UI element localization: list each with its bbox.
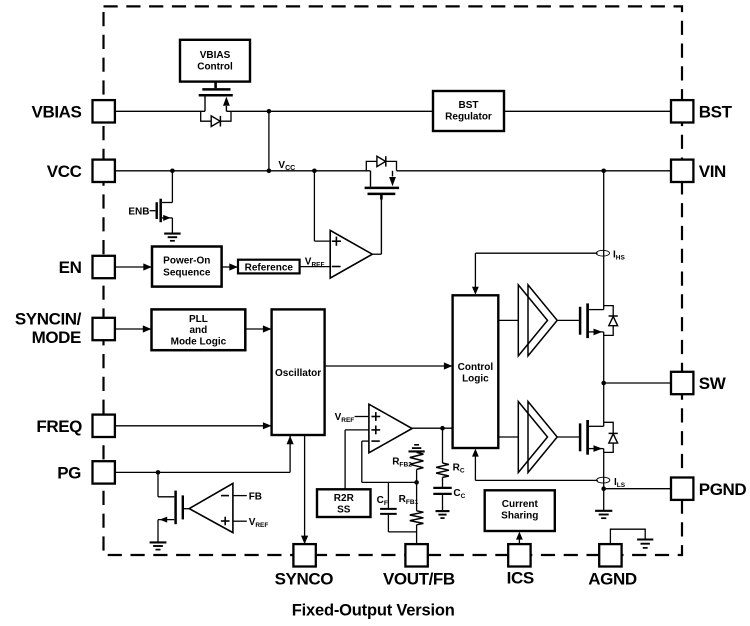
pin VCC xyxy=(93,160,115,182)
svg-text:MODE: MODE xyxy=(32,328,81,347)
block Reference xyxy=(238,260,300,274)
svg-text:RFB1: RFB1 xyxy=(399,494,419,506)
svg-text:ICS: ICS xyxy=(507,569,534,588)
wire PG up into Oscillator xyxy=(289,436,291,472)
wire VREF input of PG comparator xyxy=(233,520,247,522)
svg-text:R2R: R2R xyxy=(334,493,355,504)
pin ICS xyxy=(508,544,530,566)
svg-text:ILS: ILS xyxy=(614,477,626,489)
wire rail low-side source to ground xyxy=(603,449,605,511)
svg-text:VOUT/FB: VOUT/FB xyxy=(383,569,455,588)
svg-text:Oscillator: Oscillator xyxy=(275,368,321,379)
block Current Sharing xyxy=(485,490,555,531)
svg-text:SYNCIN/: SYNCIN/ xyxy=(15,310,82,329)
svg-text:BST: BST xyxy=(459,100,479,111)
svg-text:Sequence: Sequence xyxy=(163,268,211,279)
svg-text:Power-On: Power-On xyxy=(163,256,210,267)
pin SYNCO xyxy=(293,544,315,566)
node VIN rail junction xyxy=(601,169,606,174)
wire Control Logic to high-side driver xyxy=(498,319,518,321)
svg-text:BST: BST xyxy=(699,102,733,121)
diode D3 body diode of Q5 xyxy=(604,306,614,316)
pin EN xyxy=(93,256,115,278)
wire error amp output to Control Logic xyxy=(412,427,453,429)
node feedback divider junction xyxy=(414,480,419,485)
wire op-amp noninverting input from VCC xyxy=(313,171,315,241)
wire feedback to error amp inverting input xyxy=(362,440,369,442)
wire Control Logic to low-side driver xyxy=(498,436,518,438)
op-amp U3 error amplifier xyxy=(369,404,412,453)
svg-text:Logic: Logic xyxy=(462,373,489,384)
node PG FET junction xyxy=(156,470,161,475)
node SW junction xyxy=(601,381,606,386)
pin FREQ xyxy=(93,415,115,437)
wire VIN rail down to high-side FET xyxy=(603,171,605,310)
svg-text:Fixed-Output Version: Fixed-Output Version xyxy=(292,601,455,619)
transistor Q1 VBIAS pass FET xyxy=(214,82,217,89)
svg-text:VREF: VREF xyxy=(305,256,325,268)
diode D2 bypass of VCC FET xyxy=(366,161,376,170)
sense IHS current monitor xyxy=(475,252,597,254)
wire VBIAS pin to pass FET xyxy=(115,110,205,112)
wire FREQ pin to Oscillator xyxy=(115,425,271,427)
pin VIN xyxy=(671,160,693,182)
pin PGND xyxy=(671,478,693,500)
wire EN pin to Power-On Sequence xyxy=(115,266,151,268)
svg-text:Control: Control xyxy=(458,362,494,373)
svg-text:AGND: AGND xyxy=(588,569,637,588)
transistor Q3 ENB FET xyxy=(150,210,156,212)
wire FB input of PG comparator xyxy=(233,495,247,497)
pin BST xyxy=(671,100,693,122)
svg-text:SYNCO: SYNCO xyxy=(275,569,334,588)
svg-text:VCC: VCC xyxy=(278,160,295,172)
comparator U2 power-good xyxy=(189,483,233,532)
wire ICS pin to Current Sharing xyxy=(518,537,520,544)
wire SW rail segment xyxy=(603,332,605,426)
resistor RFB2 xyxy=(410,452,424,469)
sense ILS current monitor xyxy=(475,479,597,481)
wire PLL to Oscillator xyxy=(245,328,270,330)
IC boundary dashed border xyxy=(104,6,683,555)
diode D4 body diode of Q6 xyxy=(604,422,614,433)
block PLL and Mode Logic xyxy=(152,309,246,350)
wire BST Regulator to BST pin xyxy=(504,110,671,112)
svg-text:Mode Logic: Mode Logic xyxy=(171,336,227,347)
wire R2R SS to error amp input 2 xyxy=(345,429,369,431)
wire Oscillator to Control Logic xyxy=(325,365,452,367)
wire junction down to VCC line xyxy=(268,111,270,171)
svg-text:VCC: VCC xyxy=(47,162,82,181)
op-amp U1 VCC regulator xyxy=(330,230,372,278)
block R2R SS xyxy=(317,489,371,517)
capacitor CF xyxy=(387,482,389,508)
svg-text:PGND: PGND xyxy=(699,480,747,499)
ground of PG FET xyxy=(150,541,167,543)
driver A1 high-side gate driver xyxy=(518,285,547,356)
diode D1 bypass of VBIAS FET xyxy=(201,111,211,121)
transistor Q5 high-side FET xyxy=(579,307,582,335)
wire Power-On Sequence to Reference xyxy=(222,266,237,268)
wire high-side driver to Q5 gate xyxy=(557,319,579,321)
wire Oscillator to SYNCO pin xyxy=(304,435,306,544)
pin AGND xyxy=(599,544,621,566)
svg-text:PLL: PLL xyxy=(189,314,208,325)
wire SYNCIN/MODE pin to PLL xyxy=(115,328,151,330)
svg-text:IHS: IHS xyxy=(613,249,625,261)
ground of compensation xyxy=(442,494,444,511)
svg-text:VREF: VREF xyxy=(249,517,269,529)
ground analog ground symbol xyxy=(637,538,653,540)
wire op-amp output to VCC FET gate xyxy=(372,253,381,255)
svg-text:Regulator: Regulator xyxy=(445,111,492,122)
wire PG pin across to Oscillator bottom xyxy=(115,471,290,473)
block Oscillator xyxy=(272,309,325,435)
svg-text:RC: RC xyxy=(453,462,465,474)
node PGND junction xyxy=(601,486,606,491)
svg-text:Reference: Reference xyxy=(245,262,294,273)
svg-text:RFB2: RFB2 xyxy=(392,457,412,469)
svg-text:SW: SW xyxy=(699,374,727,393)
wire Reference to op-amp inverting input xyxy=(300,266,331,268)
wire to PGND pin xyxy=(604,488,671,490)
pin VBIAS xyxy=(93,100,115,122)
node VBIAS-VCC junction xyxy=(267,169,272,174)
svg-text:FB: FB xyxy=(249,491,262,502)
node compensation junction xyxy=(440,426,445,431)
pin SYNCIN/MODE xyxy=(93,318,115,340)
svg-text:SS: SS xyxy=(337,505,351,516)
transistor Q6 low-side FET xyxy=(579,423,582,451)
svg-text:Sharing: Sharing xyxy=(501,511,538,522)
transistor Q4 PG FET xyxy=(157,472,159,496)
wire pass FET to BST Regulator xyxy=(226,110,433,112)
svg-text:FREQ: FREQ xyxy=(36,417,82,436)
svg-text:VIN: VIN xyxy=(699,162,726,181)
wire VCC pin to pass FET xyxy=(115,170,371,172)
wire low-side driver to Q6 gate xyxy=(557,436,579,438)
node ENB drain junction xyxy=(170,169,175,174)
capacitor CC xyxy=(442,477,444,487)
pin PG xyxy=(93,461,115,483)
driver A2 low-side gate driver xyxy=(518,402,547,473)
svg-text:ENB: ENB xyxy=(128,206,149,217)
wire SW to pin xyxy=(604,382,671,384)
svg-text:VREF: VREF xyxy=(335,412,355,424)
block Power-On Sequence xyxy=(152,247,222,287)
svg-text:PG: PG xyxy=(57,464,81,483)
svg-text:CF: CF xyxy=(377,495,388,507)
svg-text:VBIAS: VBIAS xyxy=(32,102,82,121)
wire VCC FET to VIN pin xyxy=(397,170,672,172)
node op-amp sense junction xyxy=(312,169,317,174)
block Control Logic xyxy=(453,295,499,448)
wire AGND pin to analog ground xyxy=(610,529,645,544)
svg-text:Control: Control xyxy=(197,62,233,73)
ground power ground under rail xyxy=(595,510,612,512)
resistor RFB1 xyxy=(416,482,418,510)
svg-text:VBIAS: VBIAS xyxy=(200,50,231,61)
block BST Regulator xyxy=(433,91,504,131)
ground of ENB FET xyxy=(164,233,180,235)
resistor RC xyxy=(442,428,444,463)
svg-text:Current: Current xyxy=(502,499,539,510)
block VBIAS Control xyxy=(180,40,250,82)
wire Vref to error amp input 1 xyxy=(355,416,369,418)
rail top of feedback divider (inverted ground) xyxy=(409,450,425,452)
svg-text:CC: CC xyxy=(453,488,465,500)
node VBIAS/BST junction xyxy=(267,109,272,114)
pin SW xyxy=(671,372,693,394)
transistor Q2 VCC pass FET xyxy=(370,171,372,187)
pin VOUT/FB xyxy=(405,544,427,566)
svg-text:EN: EN xyxy=(59,258,82,277)
svg-text:and: and xyxy=(190,325,208,336)
